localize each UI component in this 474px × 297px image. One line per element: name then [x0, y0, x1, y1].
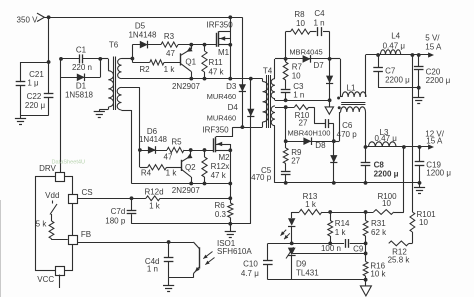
svg-text:1 k: 1 k	[335, 228, 347, 237]
svg-text:Vdd: Vdd	[45, 191, 59, 200]
svg-text:47 k: 47 k	[208, 67, 224, 76]
svg-text:4.7 μ: 4.7 μ	[241, 269, 259, 278]
svg-text:10: 10	[419, 218, 428, 227]
svg-text:1N5818: 1N5818	[65, 91, 94, 100]
svg-text:R7: R7	[292, 63, 303, 72]
svg-text:27: 27	[299, 118, 308, 127]
svg-text:1N4148: 1N4148	[139, 135, 168, 144]
svg-text:FB: FB	[81, 230, 91, 239]
svg-text:1 k: 1 k	[305, 200, 317, 209]
svg-text:1 k: 1 k	[166, 168, 178, 177]
svg-text:470 p: 470 p	[251, 173, 272, 182]
svg-text:5 V/: 5 V/	[425, 34, 440, 43]
svg-text:MBR40H100: MBR40H100	[288, 129, 331, 138]
svg-text:C7d: C7d	[111, 207, 126, 216]
svg-text:D7: D7	[314, 61, 325, 70]
svg-text:10 k: 10 k	[370, 269, 386, 278]
svg-text:L4: L4	[391, 31, 400, 40]
svg-text:2N2907: 2N2907	[172, 186, 201, 195]
svg-text:MBR4045: MBR4045	[289, 47, 322, 56]
svg-text:C8: C8	[374, 161, 385, 170]
svg-text:100 n: 100 n	[321, 244, 341, 253]
svg-text:D8: D8	[315, 141, 326, 150]
svg-text:220 μ: 220 μ	[25, 101, 46, 110]
svg-text:180 p: 180 p	[105, 216, 126, 225]
svg-text:M1: M1	[218, 48, 230, 57]
svg-text:1 n: 1 n	[313, 18, 324, 27]
svg-text:10: 10	[382, 199, 391, 208]
svg-text:IRF350: IRF350	[206, 20, 233, 29]
svg-text:MUR460: MUR460	[207, 92, 237, 101]
svg-text:DataSheet4U: DataSheet4U	[52, 160, 86, 166]
svg-text:MUR460: MUR460	[207, 113, 237, 122]
svg-text:D3: D3	[226, 82, 237, 91]
svg-text:2200 μ: 2200 μ	[385, 75, 410, 84]
svg-text:2200 μ: 2200 μ	[374, 169, 399, 178]
svg-text:Q1: Q1	[185, 57, 196, 66]
svg-text:2N2907: 2N2907	[172, 82, 201, 91]
svg-text:R12d: R12d	[144, 188, 163, 197]
svg-text:R5: R5	[171, 138, 182, 147]
svg-text:47: 47	[164, 153, 173, 162]
svg-text:T6: T6	[109, 41, 119, 50]
svg-text:0.47 μ: 0.47 μ	[374, 134, 397, 143]
svg-text:15 A: 15 A	[426, 136, 443, 145]
svg-text:C22: C22	[27, 92, 42, 101]
svg-text:C1: C1	[76, 46, 87, 55]
svg-text:D5: D5	[135, 22, 146, 31]
svg-text:CS: CS	[81, 188, 92, 197]
svg-text:Q2: Q2	[185, 163, 196, 172]
svg-text:1N4148: 1N4148	[128, 31, 157, 40]
svg-text:IRF350: IRF350	[202, 125, 229, 134]
svg-text:R8: R8	[294, 10, 305, 19]
svg-text:1200 μ: 1200 μ	[426, 168, 451, 177]
svg-text:SFH610A: SFH610A	[217, 247, 252, 256]
svg-text:C10: C10	[243, 260, 258, 269]
svg-text:0.3: 0.3	[215, 210, 227, 219]
svg-text:R3: R3	[164, 32, 175, 41]
svg-text:25.8 k: 25.8 k	[388, 256, 411, 265]
svg-text:C9: C9	[353, 245, 364, 254]
svg-text:2200 μ: 2200 μ	[426, 76, 451, 85]
svg-text:R4: R4	[141, 168, 152, 177]
svg-text:0.47 μ: 0.47 μ	[383, 41, 406, 50]
svg-text:27: 27	[291, 157, 300, 166]
svg-text:10: 10	[296, 19, 305, 28]
svg-text:T4: T4	[263, 67, 273, 76]
svg-text:L1: L1	[347, 84, 356, 93]
svg-text:R11: R11	[208, 58, 223, 67]
svg-text:VCC: VCC	[37, 275, 54, 284]
svg-text:47 k: 47 k	[211, 171, 227, 180]
svg-text:R6: R6	[214, 201, 225, 210]
svg-text:D4: D4	[228, 103, 239, 112]
svg-text:15 A: 15 A	[425, 43, 442, 52]
svg-text:R14: R14	[335, 219, 350, 228]
svg-text:R31: R31	[371, 219, 386, 228]
svg-text:R12x: R12x	[211, 162, 230, 171]
svg-text:62 k: 62 k	[371, 228, 387, 237]
svg-text:1 μ: 1 μ	[27, 79, 39, 88]
svg-text:C4: C4	[314, 9, 325, 18]
svg-text:C7: C7	[385, 66, 396, 75]
svg-text:350 V: 350 V	[17, 15, 39, 24]
svg-text:5 k: 5 k	[36, 220, 48, 229]
svg-text:1 n: 1 n	[293, 91, 304, 100]
svg-text:220 n: 220 n	[72, 63, 92, 72]
svg-text:1 k: 1 k	[149, 202, 161, 211]
svg-text:10: 10	[292, 72, 301, 81]
svg-text:1 k: 1 k	[164, 65, 176, 74]
svg-text:1 n: 1 n	[147, 265, 158, 274]
svg-text:D9: D9	[296, 260, 307, 269]
svg-text:R2: R2	[139, 65, 150, 74]
svg-text:C6: C6	[342, 121, 353, 130]
svg-text:M2: M2	[218, 153, 230, 162]
svg-text:47: 47	[166, 49, 175, 58]
svg-text:TL431: TL431	[296, 269, 319, 278]
svg-text:D1: D1	[76, 81, 87, 90]
